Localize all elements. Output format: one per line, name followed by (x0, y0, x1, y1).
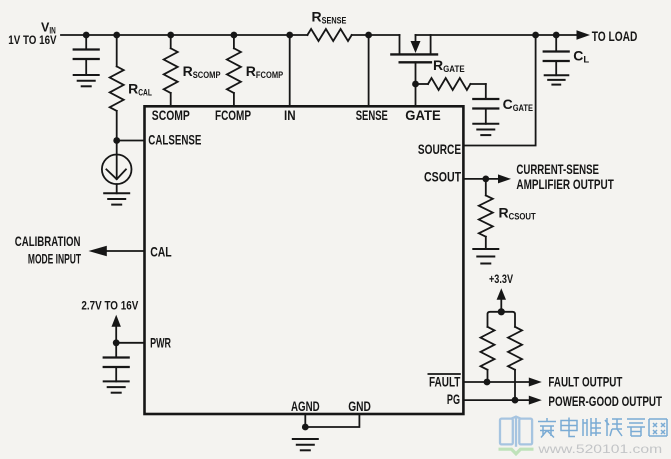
resistor RSENSE (307, 29, 351, 41)
svg-text:POWER-GOOD OUTPUT: POWER-GOOD OUTPUT (548, 393, 662, 409)
resistor pull-up PG (508, 327, 522, 400)
ground ICAL (104, 193, 129, 204)
svg-text:2.7V TO 16V: 2.7V TO 16V (81, 299, 138, 313)
wire SENSE pin (368, 35, 370, 106)
svg-text:FAULT: FAULT (429, 374, 461, 390)
ground RCSOUT (473, 249, 498, 264)
node PWR (113, 339, 120, 346)
wire pullup split (488, 312, 516, 327)
resistor RGATE (416, 78, 486, 90)
svg-text:AGND: AGND (291, 398, 320, 414)
svg-text:TO LOAD: TO LOAD (592, 28, 638, 44)
svg-text:CALIBRATION: CALIBRATION (15, 233, 81, 249)
capacitor CL (544, 35, 569, 75)
ground CGATE (473, 124, 498, 135)
current source ICAL (102, 141, 132, 194)
wire CAL input (106, 250, 144, 252)
resistor RCAL (110, 35, 124, 141)
overline FAULT pin (428, 373, 460, 375)
ground CL (545, 75, 569, 84)
arrow FAULT output (529, 378, 542, 387)
svg-text:IN: IN (284, 107, 296, 123)
svg-text:FCOMP: FCOMP (215, 107, 251, 123)
transistor Q1 MOSFET (391, 35, 437, 62)
wire GND strap (305, 414, 359, 427)
wire IN pin (289, 35, 291, 106)
node PG (512, 397, 519, 404)
wire gate (415, 62, 417, 106)
svg-text:+3.3V: +3.3V (489, 274, 513, 286)
svg-text:GATE: GATE (405, 107, 440, 123)
node AGND (302, 424, 309, 431)
svg-text:SOURCE: SOURCE (418, 141, 461, 157)
node +3.3V (498, 308, 505, 315)
ground PWR bypass (104, 381, 129, 392)
capacitor VIN bypass (74, 35, 99, 75)
resistor pull-up FAULT (481, 327, 495, 382)
wire top rail VIN to RSENSE (61, 34, 307, 36)
svg-text:PWR: PWR (150, 335, 171, 351)
node CL (553, 32, 560, 39)
arrow 2.7V supply (112, 315, 121, 343)
capacitor CGATE (473, 84, 498, 124)
capacitor PWR bypass (104, 343, 129, 382)
wire AGND (304, 414, 306, 427)
ground AGND (293, 439, 318, 450)
watermark book base (499, 449, 534, 454)
node VIN bypass (83, 32, 90, 39)
resistor RSCOMP (164, 35, 178, 106)
svg-text:GND: GND (348, 398, 371, 414)
wire FAULT output (463, 381, 529, 383)
wire SOURCE riser (463, 35, 535, 146)
wire CSOUT (463, 178, 498, 180)
svg-text:SCOMP: SCOMP (152, 107, 190, 123)
wire PWR pin (116, 342, 144, 344)
resistor RCSOUT (479, 179, 493, 249)
node IN (286, 32, 293, 39)
watermark book logo (500, 417, 532, 447)
svg-text:SENSE: SENSE (356, 107, 388, 123)
node RFCOMP top (231, 32, 238, 39)
svg-text:CAL: CAL (150, 243, 172, 259)
svg-text:AMPLIFIER OUTPUT: AMPLIFIER OUTPUT (516, 176, 614, 192)
node RCAL top (113, 32, 120, 39)
wire top rail MOSFET to load (416, 34, 578, 36)
svg-text:PG: PG (447, 391, 460, 407)
node RSCOMP top (167, 32, 174, 39)
svg-text:FAULT OUTPUT: FAULT OUTPUT (548, 373, 622, 389)
node gate (412, 81, 419, 88)
svg-text:MODE INPUT: MODE INPUT (28, 251, 81, 267)
arrow CAL input (89, 246, 107, 257)
svg-text:www.520101.com: www.520101.com (537, 442, 662, 456)
node SENSE (365, 32, 372, 39)
arrow PG output (529, 396, 542, 405)
svg-text:CALSENSE: CALSENSE (148, 132, 201, 148)
arrow CSOUT output (498, 174, 511, 183)
arrow TO LOAD (577, 30, 591, 39)
ground VIN bypass (74, 75, 99, 86)
resistor RFCOMP (227, 35, 241, 106)
arrow +3.3V (497, 288, 506, 312)
node FAULT (484, 379, 491, 386)
wire CALSENSE to pin (117, 140, 145, 142)
node CSOUT (482, 176, 489, 183)
node CALSENSE (113, 137, 120, 144)
svg-text:1V TO 16V: 1V TO 16V (8, 33, 56, 47)
svg-text:CURRENT-SENSE: CURRENT-SENSE (516, 161, 599, 177)
svg-text:CSOUT: CSOUT (424, 168, 461, 184)
node SOURCE riser (532, 32, 539, 39)
wire RSENSE to MOSFET drain (352, 34, 400, 36)
IC U1 outline (145, 106, 464, 414)
watermark chinese text (538, 418, 667, 438)
wire PG output (463, 399, 529, 401)
